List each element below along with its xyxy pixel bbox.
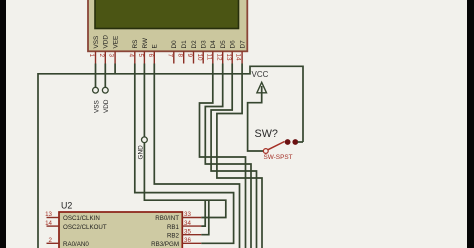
LCD module LCD1 body — [88, 0, 247, 51]
svg-text:D5: D5 — [220, 40, 227, 49]
svg-text:D4: D4 — [210, 40, 217, 49]
svg-text:E: E — [152, 44, 159, 48]
svg-text:VSS: VSS — [93, 100, 100, 113]
pin 7 stub — [173, 51, 175, 63]
svg-text:6: 6 — [147, 54, 154, 58]
svg-text:RB0/INT: RB0/INT — [155, 215, 179, 222]
pin 1 stub — [95, 51, 97, 63]
svg-text:D2: D2 — [191, 40, 198, 49]
terminal VSS circle — [93, 87, 99, 93]
pin 3 stub — [114, 51, 116, 63]
LCD pin name labels (rotated) — [93, 35, 247, 49]
svg-text:14: 14 — [45, 220, 52, 227]
wire RS down/right/down to RB3 — [135, 64, 234, 244]
wire D6 jog, down, staircase right, exits bottom — [211, 64, 256, 248]
MCU right pin numbers — [184, 211, 191, 244]
svg-text:13: 13 — [225, 54, 232, 62]
wire VDD pin2 down to terminal — [104, 64, 106, 88]
svg-text:RB2: RB2 — [167, 232, 180, 239]
MCU U2 body — [59, 212, 182, 248]
pin 35 stub — [182, 234, 201, 236]
VCC power arrow — [257, 82, 267, 93]
MCU left pin names — [63, 215, 107, 248]
svg-text:34: 34 — [184, 220, 191, 227]
svg-text:SW-SPST: SW-SPST — [264, 154, 293, 161]
MCU right pin names — [151, 215, 179, 248]
svg-text:1: 1 — [88, 54, 95, 58]
svg-text:VSS: VSS — [93, 36, 100, 49]
pin 9 stub — [193, 51, 195, 63]
svg-text:3: 3 — [108, 54, 115, 58]
pin 2 stub — [47, 242, 60, 244]
wire RB2 up to RS bus — [201, 200, 209, 235]
pin 34 stub — [182, 225, 201, 227]
svg-text:7: 7 — [166, 54, 173, 58]
svg-text:4: 4 — [127, 54, 134, 58]
svg-text:9: 9 — [186, 54, 193, 58]
pin 13 stub — [47, 217, 60, 219]
LCD pin numbers 1-14 (rotated red) — [88, 54, 242, 62]
wire VEE pin3 to horizontal bus — [114, 64, 116, 74]
svg-text:2: 2 — [98, 54, 105, 58]
LCD screen — [95, 0, 239, 29]
pin 5 stub — [143, 51, 145, 63]
svg-text:8: 8 — [176, 54, 183, 58]
svg-text:36: 36 — [184, 237, 191, 244]
terminal VDD circle — [102, 87, 108, 93]
MCU left pin numbers — [45, 211, 52, 244]
pin 36 stub — [182, 242, 201, 244]
svg-text:RS: RS — [132, 40, 139, 49]
pin 8 stub — [183, 51, 185, 63]
left black bar — [0, 0, 6, 248]
svg-text:2: 2 — [49, 237, 53, 244]
svg-text:RW: RW — [142, 37, 149, 48]
LCD pin stubs 1-14 — [96, 51, 243, 63]
switch wire to right edge — [298, 141, 304, 143]
svg-text:SW?: SW? — [255, 128, 278, 140]
wire D7 jog, down, staircase right, exits bottom — [217, 64, 262, 248]
svg-text:10: 10 — [196, 54, 203, 62]
svg-text:35: 35 — [184, 228, 191, 235]
svg-text:5: 5 — [137, 54, 144, 58]
wire E down, jog right, down exits bottom — [154, 64, 239, 248]
wire VCC power stem — [248, 86, 263, 151]
pin 4 stub — [134, 51, 136, 63]
switch contact dot 2 — [292, 139, 298, 145]
svg-text:RB1: RB1 — [167, 224, 180, 231]
svg-text:RB3/PGM: RB3/PGM — [151, 241, 179, 248]
svg-text:VDD: VDD — [103, 35, 110, 49]
svg-text:D0: D0 — [171, 40, 178, 49]
svg-text:OSC1/CLKIN: OSC1/CLKIN — [63, 215, 100, 222]
switch left terminal circle — [263, 149, 268, 154]
terminal GND circle — [142, 137, 148, 143]
pin 14 stub — [241, 51, 243, 63]
wire D5 jog, down, staircase right, exits bottom — [205, 64, 251, 248]
pin 6 stub — [153, 51, 155, 63]
svg-text:OSC2/CLKOUT: OSC2/CLKOUT — [63, 224, 107, 231]
svg-text:U2: U2 — [61, 201, 72, 211]
pin 11 stub — [212, 51, 214, 63]
switch contact dot 1 — [285, 139, 291, 145]
svg-text:D3: D3 — [201, 40, 208, 49]
pin 13 stub — [231, 51, 233, 63]
wire VSS pin1 down to terminal — [95, 64, 97, 88]
svg-text:D6: D6 — [230, 40, 237, 49]
wire RB1 up to RS bus — [201, 200, 205, 226]
svg-text:13: 13 — [45, 211, 52, 218]
wire RW down through GND tap to RB0 — [144, 64, 225, 218]
switch lever — [268, 142, 285, 150]
MCU left pin stubs — [47, 218, 60, 244]
svg-text:GND: GND — [137, 145, 144, 160]
pin 2 stub — [104, 51, 106, 63]
MCU right pin stubs — [182, 218, 201, 244]
pin 12 stub — [222, 51, 224, 63]
svg-text:14: 14 — [235, 54, 242, 62]
svg-text:RA0/AN0: RA0/AN0 — [63, 241, 89, 248]
wires (dark green) — [38, 64, 303, 248]
svg-text:VCC: VCC — [252, 70, 269, 79]
wire D4 jog, down, staircase right, exits bottom — [200, 64, 246, 248]
pin 33 stub — [182, 217, 201, 219]
pin 10 stub — [202, 51, 204, 63]
svg-text:D7: D7 — [240, 40, 247, 49]
svg-text:VEE: VEE — [113, 36, 120, 49]
svg-text:12: 12 — [215, 54, 222, 62]
svg-text:D1: D1 — [181, 40, 188, 49]
right black bar — [467, 0, 474, 248]
svg-text:VDD: VDD — [103, 99, 110, 113]
wire long horizontal bus y=73.8 — [38, 66, 303, 248]
svg-text:11: 11 — [205, 54, 212, 61]
svg-text:33: 33 — [184, 211, 191, 218]
pin 14 stub — [47, 225, 60, 227]
